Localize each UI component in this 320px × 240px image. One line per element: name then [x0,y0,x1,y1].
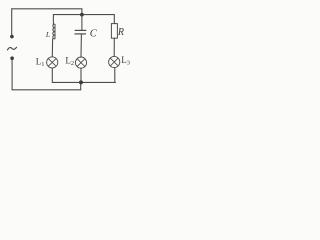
wire top horizontal [12,9,82,15]
wire left lower [11,60,13,90]
capacitor C plates [75,30,87,34]
wire L-branch top [52,15,54,24]
wire R-branch middle [113,38,115,56]
wire C-branch bottom [80,68,82,82]
wire lamp-row horizontal [52,81,115,83]
svg-text:C: C [90,29,98,40]
lamp L3 [109,56,120,67]
AC source terminal dot lower [10,56,14,60]
wire R-branch top [113,15,115,24]
AC source terminal dot upper [10,35,14,39]
node junction dot top (C branch tap) [80,13,84,17]
wire C-branch middle [80,34,82,57]
wire upper distribution row [53,14,114,16]
lamp L1 [47,57,58,68]
resistor R box [111,24,117,39]
inductor L coil [53,24,55,39]
wire L-branch bottom [51,68,53,82]
node junction dot bottom [79,80,83,84]
wire L-branch middle [51,39,53,57]
wire bottom horizontal [12,82,81,89]
wire C-branch top [81,15,83,31]
svg-text:R: R [117,27,124,38]
lamp L2 [75,57,86,68]
svg-text:L: L [45,30,50,39]
AC source tilde [7,47,16,50]
wire R-branch bottom [114,68,116,83]
wire left upper [11,9,13,35]
